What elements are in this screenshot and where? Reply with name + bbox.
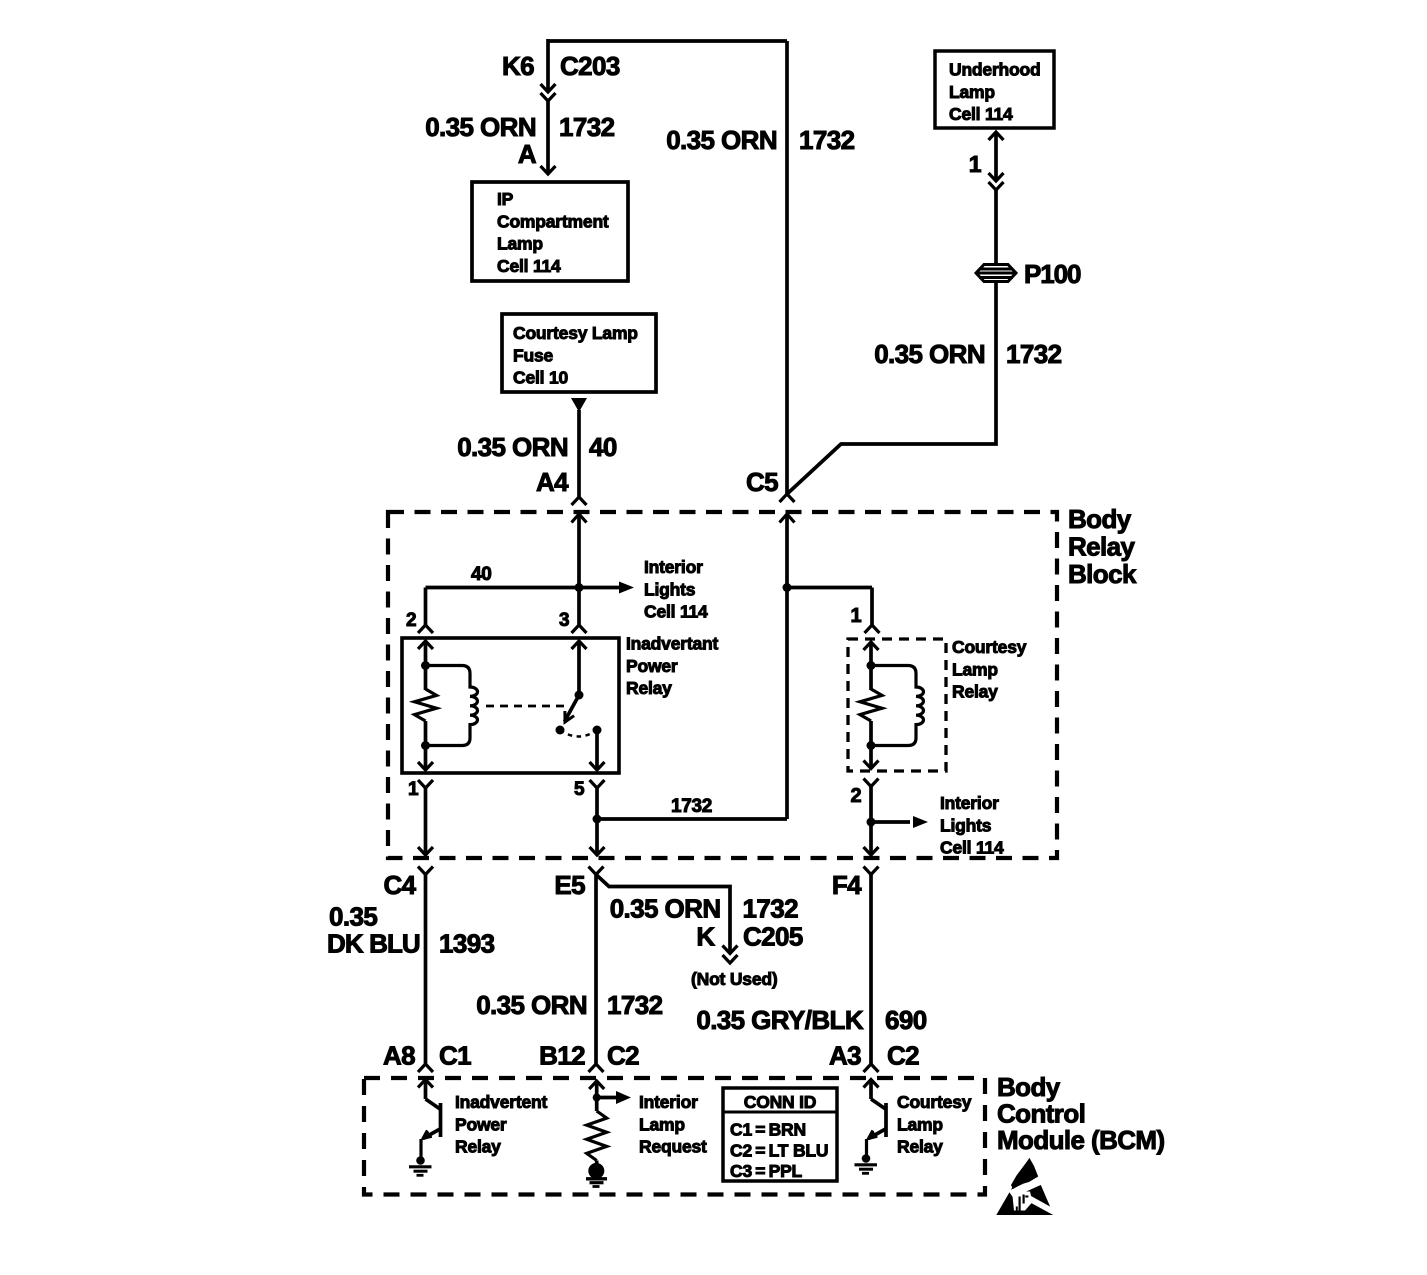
svg-text:1: 1 (969, 151, 982, 177)
svg-text:F4: F4 (832, 870, 862, 900)
svg-text:0.35 ORN: 0.35 ORN (425, 112, 536, 142)
svg-text:1: 1 (850, 605, 861, 627)
svg-text:3: 3 (559, 610, 569, 631)
svg-text:Lamp: Lamp (952, 659, 998, 679)
svg-text:1732: 1732 (799, 125, 855, 155)
svg-text:K: K (696, 922, 715, 952)
svg-text:1732: 1732 (607, 990, 663, 1020)
svg-text:Request: Request (639, 1137, 707, 1157)
svg-text:C2: C2 (607, 1041, 639, 1071)
svg-text:Lights: Lights (940, 815, 992, 835)
svg-text:690: 690 (885, 1005, 927, 1035)
svg-text:0.35 ORN: 0.35 ORN (610, 894, 721, 924)
svg-text:A4: A4 (536, 467, 569, 497)
svg-text:Interior: Interior (940, 793, 999, 813)
svg-text:Fuse: Fuse (513, 345, 554, 365)
svg-text:C1: C1 (439, 1041, 471, 1071)
svg-text:E5: E5 (554, 870, 585, 900)
svg-text:Interior: Interior (644, 557, 703, 577)
svg-text:C2: C2 (887, 1041, 919, 1071)
svg-text:(Not Used): (Not Used) (691, 969, 777, 989)
svg-text:Lamp: Lamp (639, 1114, 685, 1134)
svg-text:Power: Power (455, 1114, 507, 1134)
svg-text:Body: Body (997, 1072, 1061, 1102)
svg-text:C1 = BRN: C1 = BRN (730, 1120, 806, 1140)
svg-text:Courtesy Lamp: Courtesy Lamp (513, 323, 638, 343)
svg-text:Relay: Relay (455, 1137, 501, 1157)
svg-text:1732: 1732 (559, 112, 615, 142)
svg-text:Courtesy: Courtesy (952, 637, 1027, 657)
svg-text:C4: C4 (383, 870, 416, 900)
svg-text:2: 2 (850, 785, 861, 807)
svg-text:Compartment: Compartment (497, 211, 609, 231)
svg-text:DK BLU: DK BLU (327, 929, 420, 959)
svg-text:1732: 1732 (1006, 339, 1062, 369)
svg-text:Cell 114: Cell 114 (497, 256, 561, 276)
svg-text:1732: 1732 (743, 894, 799, 924)
svg-text:0.35 ORN: 0.35 ORN (457, 432, 568, 462)
svg-text:Interior: Interior (639, 1092, 698, 1112)
svg-text:Lamp: Lamp (949, 82, 995, 102)
svg-text:C5: C5 (746, 467, 778, 497)
svg-text:A3: A3 (829, 1041, 861, 1071)
svg-text:Power: Power (626, 656, 678, 676)
svg-text:C203: C203 (560, 51, 620, 81)
svg-text:Lamp: Lamp (897, 1114, 943, 1134)
svg-text:40: 40 (589, 432, 617, 462)
svg-text:40: 40 (471, 564, 492, 585)
svg-text:1393: 1393 (439, 929, 495, 959)
svg-text:IP: IP (497, 189, 514, 209)
svg-text:5: 5 (574, 779, 585, 800)
svg-text:Cell 114: Cell 114 (940, 838, 1004, 858)
svg-text:Control: Control (997, 1099, 1085, 1129)
svg-text:Relay: Relay (952, 682, 998, 702)
svg-text:K6: K6 (502, 51, 534, 81)
svg-text:C3 = PPL: C3 = PPL (730, 1161, 803, 1181)
svg-text:0.35: 0.35 (329, 902, 377, 932)
svg-text:CONN ID: CONN ID (744, 1092, 817, 1112)
svg-text:Block: Block (1068, 559, 1137, 589)
svg-text:1732: 1732 (671, 796, 712, 817)
svg-text:Relay: Relay (897, 1137, 943, 1157)
svg-text:C2 = LT BLU: C2 = LT BLU (730, 1140, 828, 1160)
svg-text:A: A (518, 139, 537, 169)
svg-text:Cell 10: Cell 10 (513, 368, 568, 388)
svg-text:Relay: Relay (626, 678, 672, 698)
svg-text:0.35 GRY/BLK: 0.35 GRY/BLK (696, 1005, 863, 1035)
svg-text:Courtesy: Courtesy (897, 1092, 972, 1112)
svg-text:Lamp: Lamp (497, 234, 543, 254)
svg-text:Module (BCM): Module (BCM) (997, 1125, 1165, 1155)
svg-text:0.35 ORN: 0.35 ORN (666, 125, 777, 155)
svg-text:Cell 114: Cell 114 (949, 104, 1013, 124)
svg-text:B12: B12 (539, 1041, 585, 1071)
svg-text:Inadvertant: Inadvertant (626, 634, 718, 654)
svg-text:Cell 114: Cell 114 (644, 602, 708, 622)
svg-text:A8: A8 (383, 1041, 415, 1071)
svg-text:0.35 ORN: 0.35 ORN (874, 339, 985, 369)
svg-text:Underhood: Underhood (949, 60, 1041, 80)
svg-text:Body: Body (1068, 504, 1132, 534)
svg-text:C205: C205 (743, 922, 803, 952)
svg-text:1: 1 (408, 779, 419, 800)
svg-text:P100: P100 (1024, 259, 1081, 289)
svg-text:2: 2 (406, 610, 416, 631)
svg-text:Lights: Lights (644, 579, 696, 599)
svg-text:Relay: Relay (1068, 532, 1136, 562)
svg-text:0.35 ORN: 0.35 ORN (476, 990, 587, 1020)
svg-text:Inadvertent: Inadvertent (455, 1092, 547, 1112)
